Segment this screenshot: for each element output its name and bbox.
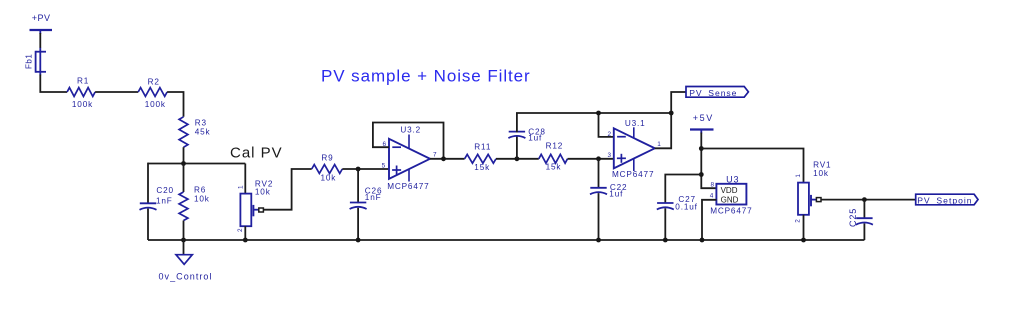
op-amp U3.1 bbox=[607, 119, 661, 179]
junction feedback to output bbox=[669, 111, 674, 116]
svg-text:1: 1 bbox=[238, 185, 245, 189]
svg-text:45k: 45k bbox=[195, 128, 211, 137]
wire RV2 top lead bbox=[244, 164, 246, 194]
wire U3.2 feedback loop bbox=[373, 123, 444, 159]
op-amp U3.2 bbox=[382, 125, 437, 191]
wire C22 bottom lead bbox=[598, 193, 600, 240]
junction GND bottom bbox=[700, 238, 705, 243]
wire GND pin to rail bbox=[702, 200, 716, 240]
svg-text:R9: R9 bbox=[321, 153, 333, 162]
wire C28 top to feedback rail bbox=[517, 113, 671, 132]
junction feedback to pin2 bbox=[596, 111, 601, 116]
svg-text:10k: 10k bbox=[255, 188, 271, 197]
svg-text:MCP6477: MCP6477 bbox=[612, 170, 654, 179]
ic U3 power box bbox=[710, 174, 753, 215]
wire RV1 bottom lead bbox=[803, 215, 805, 240]
svg-text:1nF: 1nF bbox=[365, 193, 382, 202]
wire RV2 wiper to R9 bbox=[263, 169, 311, 210]
ferrite bead Fb1 bbox=[25, 48, 47, 76]
svg-text:R2: R2 bbox=[148, 78, 160, 87]
junction cal node bbox=[181, 161, 186, 166]
wire +PV to Fb1 bbox=[39, 33, 41, 48]
net flag PV_Setpoint bbox=[916, 194, 978, 205]
wire C22 top lead bbox=[598, 159, 600, 189]
svg-text:7: 7 bbox=[433, 151, 437, 158]
svg-text:Cal PV: Cal PV bbox=[230, 145, 283, 162]
wire RV2 bottom lead bbox=[244, 226, 246, 240]
junction U3.2 feedback tap bbox=[441, 156, 446, 161]
wire C25 bottom lead bbox=[863, 224, 865, 241]
potentiometer RV1 bbox=[795, 161, 832, 223]
svg-text:1: 1 bbox=[657, 141, 661, 148]
wire U3.1 pin2 stub bbox=[599, 113, 614, 137]
junction RV1 bottom bbox=[801, 238, 806, 243]
junction C22 bottom bbox=[596, 238, 601, 243]
wire +5V to RV1 bbox=[701, 149, 803, 183]
svg-text:8: 8 bbox=[710, 182, 714, 189]
wire C27 branch bbox=[665, 175, 701, 204]
wire RV1 wiper to PV_Setpoint bbox=[821, 199, 916, 201]
svg-text:1uf: 1uf bbox=[609, 190, 623, 199]
resistor R2 bbox=[138, 78, 167, 110]
svg-text:VDD: VDD bbox=[721, 186, 738, 195]
svg-text:PV sample + Noise Filter: PV sample + Noise Filter bbox=[321, 67, 531, 86]
wire C26 top lead bbox=[357, 169, 359, 203]
resistor R6 bbox=[179, 164, 210, 221]
svg-text:2: 2 bbox=[607, 131, 611, 138]
svg-text:Fb1: Fb1 bbox=[25, 54, 34, 69]
svg-text:R6: R6 bbox=[194, 186, 206, 195]
capacitor C25 bbox=[848, 208, 873, 227]
junction C25 tap bbox=[862, 197, 867, 202]
wire C26 bottom lead bbox=[357, 208, 359, 240]
resistor R3 bbox=[179, 117, 210, 147]
junction +5V to RV1 branch bbox=[699, 146, 704, 151]
resistor R11 bbox=[465, 142, 496, 172]
wire R9 to op-amp pin5 bbox=[342, 168, 389, 170]
wire C20 top lead bbox=[147, 163, 149, 204]
capacitor C20 bbox=[140, 186, 174, 210]
junction R6 bottom bbox=[181, 238, 186, 243]
svg-text:+PV: +PV bbox=[32, 13, 51, 23]
wire U3.1 output to PV_Sense bbox=[655, 92, 686, 148]
svg-text:PV_Setpoin: PV_Setpoin bbox=[917, 195, 972, 205]
svg-text:U3: U3 bbox=[726, 174, 739, 184]
svg-text:MCP6477: MCP6477 bbox=[710, 207, 752, 216]
svg-text:GND: GND bbox=[721, 196, 739, 205]
potentiometer RV2 bbox=[237, 179, 273, 232]
capacitor C22 bbox=[590, 183, 627, 199]
net flag PV_Sense bbox=[686, 87, 748, 98]
power +5V bbox=[690, 113, 714, 134]
svg-text:U3.2: U3.2 bbox=[400, 125, 421, 134]
ground rail wire bbox=[148, 239, 864, 241]
wire R1 to R2 bbox=[95, 91, 138, 93]
junction C22 tap bbox=[596, 156, 601, 161]
svg-text:5: 5 bbox=[382, 163, 386, 170]
svg-text:2: 2 bbox=[237, 228, 244, 232]
svg-text:10k: 10k bbox=[321, 173, 337, 182]
svg-text:R12: R12 bbox=[546, 141, 564, 150]
resistor R1 bbox=[67, 77, 95, 109]
svg-text:100k: 100k bbox=[145, 100, 166, 109]
svg-text:U3.1: U3.1 bbox=[625, 119, 646, 128]
wire C28 bottom lead bbox=[516, 136, 518, 159]
svg-text:15k: 15k bbox=[546, 162, 562, 171]
svg-text:C25: C25 bbox=[848, 208, 858, 227]
junction C26 tap bbox=[356, 167, 361, 172]
junction C27 bottom bbox=[663, 238, 668, 243]
resistor R9 bbox=[312, 153, 343, 182]
svg-text:0.1uf: 0.1uf bbox=[675, 203, 697, 212]
svg-text:4: 4 bbox=[710, 193, 714, 200]
svg-text:1: 1 bbox=[795, 174, 802, 178]
wire R2 to R3 bbox=[167, 92, 183, 117]
wire R12 to op-amp pin3 bbox=[568, 158, 614, 160]
wire R6 bottom lead bbox=[183, 221, 185, 241]
wire R11 to R12 bbox=[496, 158, 539, 160]
svg-text:10k: 10k bbox=[194, 195, 210, 204]
ground symbol bbox=[176, 255, 192, 265]
junction +5V to C27 branch bbox=[699, 172, 704, 177]
capacitor C27 bbox=[657, 195, 698, 211]
svg-text:R3: R3 bbox=[195, 119, 207, 128]
svg-text:PV_Sense: PV_Sense bbox=[689, 88, 737, 98]
wire ground stub bbox=[183, 240, 185, 255]
svg-text:+5V: +5V bbox=[693, 113, 714, 123]
wire cal node rail bbox=[148, 163, 245, 165]
wire C27 bottom lead bbox=[664, 208, 666, 240]
wire U3.2 output bbox=[430, 158, 465, 160]
wire +5V down to VDD bbox=[701, 133, 716, 189]
wire R3 to cal node bbox=[183, 147, 185, 163]
capacitor C28 bbox=[508, 127, 545, 142]
svg-text:0v_Control: 0v_Control bbox=[159, 272, 213, 282]
wire C20 bottom lead bbox=[147, 209, 149, 240]
wire Fb1 to R1 bbox=[40, 75, 67, 93]
power +PV bbox=[30, 13, 53, 34]
junction RV2 bottom bbox=[243, 238, 248, 243]
svg-text:R1: R1 bbox=[77, 77, 89, 86]
capacitor C26 bbox=[350, 187, 383, 210]
svg-text:3: 3 bbox=[607, 152, 611, 159]
junction C26 bottom bbox=[356, 238, 361, 243]
svg-text:2: 2 bbox=[795, 219, 802, 223]
svg-text:10k: 10k bbox=[813, 169, 829, 178]
svg-text:100k: 100k bbox=[72, 100, 93, 109]
junction C28 bottom tap bbox=[515, 156, 520, 161]
svg-text:R11: R11 bbox=[474, 142, 491, 151]
svg-text:1nF: 1nF bbox=[156, 197, 173, 206]
wire C25 top lead bbox=[863, 200, 865, 219]
svg-text:MCP6477: MCP6477 bbox=[387, 182, 429, 191]
svg-text:15k: 15k bbox=[474, 163, 490, 172]
svg-text:C20: C20 bbox=[156, 186, 174, 195]
svg-text:1uf: 1uf bbox=[528, 134, 542, 143]
resistor R12 bbox=[539, 141, 568, 171]
